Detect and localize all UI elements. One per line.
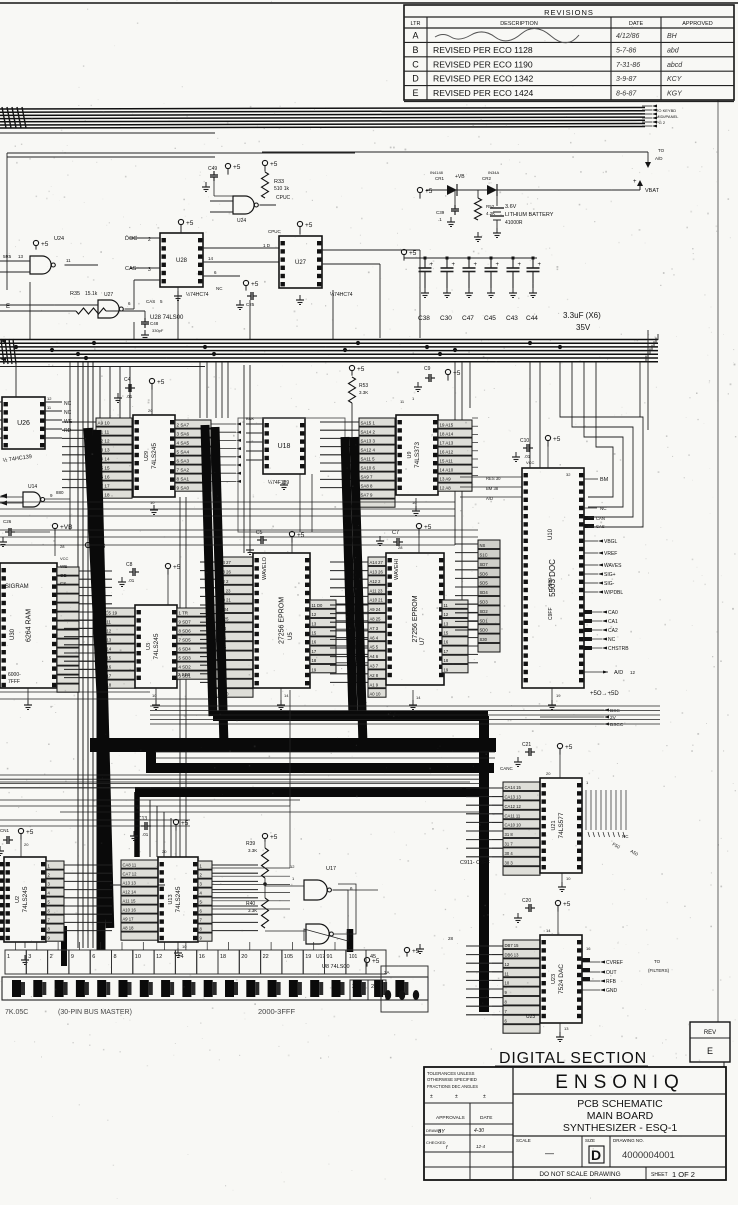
- svg-text:6264 RAM: 6264 RAM: [26, 609, 33, 642]
- svg-text:C7: C7: [392, 530, 399, 536]
- svg-text:16: 16: [586, 946, 591, 951]
- svg-text:28: 28: [448, 936, 454, 941]
- svg-text:14: 14: [208, 256, 214, 261]
- svg-text:.01: .01: [126, 394, 133, 399]
- svg-text:BSCC: BSCC: [610, 722, 624, 728]
- svg-text:D: D: [412, 74, 419, 84]
- svg-text:APPROVALS: APPROVALS: [436, 1115, 465, 1121]
- svg-text:CA0: CA0: [608, 610, 618, 616]
- svg-text:9: 9: [71, 954, 74, 960]
- svg-text:15: 15: [312, 631, 317, 636]
- svg-text:SHEET: SHEET: [651, 1172, 668, 1178]
- svg-text:C10: C10: [520, 438, 529, 444]
- svg-text:12: 12: [47, 396, 52, 401]
- svg-text:+5: +5: [26, 829, 34, 836]
- svg-text:7524 DAC: 7524 DAC: [558, 964, 565, 994]
- svg-text:12: 12: [444, 612, 449, 617]
- svg-text:NC: NC: [64, 410, 72, 416]
- svg-text:A9 17: A9 17: [123, 917, 135, 922]
- svg-text:18 A14: 18 A14: [440, 432, 454, 437]
- svg-text:30 3: 30 3: [505, 860, 514, 865]
- svg-text:3.3K: 3.3K: [359, 390, 368, 395]
- svg-text:CHSTRB: CHSTRB: [608, 646, 629, 652]
- svg-text:A5 5: A5 5: [370, 645, 379, 650]
- svg-text:A/D: A/D: [614, 670, 623, 676]
- svg-text:14 A10: 14 A10: [440, 468, 454, 473]
- svg-text:19: 19: [444, 667, 449, 672]
- svg-text:(FILTERS): (FILTERS): [648, 968, 670, 973]
- svg-text:U14: U14: [28, 484, 37, 490]
- svg-text:SYNTHESIZER - ESQ-1: SYNTHESIZER - ESQ-1: [563, 1122, 678, 1134]
- svg-text:U27: U27: [104, 292, 113, 298]
- svg-text:U26: U26: [17, 420, 30, 427]
- svg-text:31 8: 31 8: [505, 832, 514, 837]
- svg-text:C20: C20: [522, 898, 531, 904]
- svg-text:+5: +5: [553, 436, 561, 443]
- svg-text:12 A8: 12 A8: [440, 486, 452, 491]
- svg-text:5 SD3: 5 SD3: [179, 656, 192, 661]
- svg-text:+5: +5: [41, 241, 49, 248]
- svg-text:C911- C9FF: C911- C9FF: [460, 860, 490, 866]
- svg-text:CS: CS: [60, 581, 66, 586]
- svg-text:CPUC: CPUC: [268, 229, 282, 234]
- svg-text:7 SD5: 7 SD5: [179, 638, 192, 643]
- svg-text:+5: +5: [412, 948, 420, 955]
- svg-text:WAVEHI: WAVEHI: [394, 558, 400, 580]
- svg-text:SD5: SD5: [480, 581, 489, 586]
- svg-text:A12 2: A12 2: [370, 579, 382, 584]
- svg-text:SIG+: SIG+: [604, 572, 616, 578]
- svg-text:—: —: [545, 1148, 554, 1158]
- svg-text:A13 26: A13 26: [370, 570, 384, 575]
- svg-text:41000R: 41000R: [505, 220, 523, 226]
- svg-text:C39: C39: [436, 210, 445, 215]
- svg-text:NC: NC: [216, 286, 223, 291]
- svg-text:CAS: CAS: [596, 524, 605, 529]
- svg-text:20: 20: [24, 842, 29, 847]
- svg-text:R35: R35: [70, 291, 80, 297]
- svg-text:16: 16: [444, 640, 449, 645]
- svg-text:C800-: C800-: [548, 576, 554, 590]
- svg-text:REVISED PER ECO 1424: REVISED PER ECO 1424: [433, 88, 534, 98]
- svg-text:U23: U23: [526, 1014, 535, 1020]
- svg-text:7K.05C: 7K.05C: [5, 1009, 28, 1016]
- svg-text:VREF: VREF: [604, 551, 617, 557]
- svg-text:+5: +5: [357, 366, 365, 373]
- svg-text:BM: BM: [600, 477, 609, 483]
- svg-text:4 SA5: 4 SA5: [177, 441, 190, 446]
- svg-text:LTR: LTR: [411, 21, 421, 27]
- svg-text:7 SA2: 7 SA2: [177, 468, 190, 473]
- svg-text:+5: +5: [565, 744, 573, 751]
- svg-text:DATE: DATE: [480, 1115, 492, 1121]
- svg-text:C38: C38: [418, 315, 430, 322]
- svg-text:CA8 11: CA8 11: [123, 863, 137, 868]
- svg-text:R39: R39: [246, 841, 255, 847]
- svg-text:SIGRAM: SIGRAM: [5, 584, 29, 590]
- svg-text:.01: .01: [142, 832, 149, 837]
- svg-text:D̄OC: D̄OC: [125, 235, 137, 242]
- svg-text:NC: NC: [622, 834, 629, 839]
- svg-text:A/D: A/D: [655, 156, 663, 161]
- svg-text:74LS245: 74LS245: [22, 886, 29, 912]
- svg-text:REVISED PER ECO 1342: REVISED PER ECO 1342: [433, 74, 534, 84]
- svg-text:+5: +5: [270, 161, 278, 168]
- svg-text:22: 22: [263, 954, 269, 960]
- svg-text:14: 14: [546, 928, 551, 933]
- svg-text:E: E: [412, 88, 418, 98]
- svg-text:+: +: [538, 262, 542, 268]
- svg-text:5-7-86: 5-7-86: [616, 47, 636, 54]
- svg-text:CR1: CR1: [435, 176, 444, 181]
- svg-text:20: 20: [148, 408, 153, 413]
- svg-text:FRACTIONS DEC ANGLES: FRACTIONS DEC ANGLES: [427, 1084, 478, 1089]
- svg-text:2 SD0: 2 SD0: [178, 672, 191, 677]
- svg-text:15 A11: 15 A11: [440, 459, 454, 464]
- svg-text:7-31-86: 7-31-86: [616, 62, 640, 69]
- svg-text:C4: C4: [124, 377, 131, 383]
- svg-text:U27: U27: [295, 260, 307, 266]
- svg-text:101: 101: [349, 954, 358, 960]
- svg-text:11: 11: [444, 603, 449, 608]
- svg-text:DB7 15: DB7 15: [505, 943, 520, 948]
- svg-text:VBGL: VBGL: [604, 539, 618, 545]
- svg-text:U5: U5: [288, 632, 294, 640]
- svg-text:B: B: [412, 45, 418, 55]
- svg-text:U13: U13: [168, 894, 174, 904]
- svg-text:74LS577: 74LS577: [558, 812, 565, 838]
- svg-text:APPROVED: APPROVED: [682, 21, 713, 27]
- svg-text:45: 45: [370, 954, 376, 960]
- svg-text:WE: WE: [60, 564, 67, 569]
- svg-text:KCY: KCY: [667, 76, 683, 83]
- svg-text:30 4: 30 4: [505, 851, 514, 856]
- svg-text:+5: +5: [186, 220, 194, 227]
- svg-text:SA7 9: SA7 9: [361, 493, 374, 498]
- svg-text:SA15 1: SA15 1: [361, 421, 376, 426]
- svg-text:NC: NC: [608, 637, 616, 643]
- svg-text:19: 19: [312, 667, 317, 672]
- svg-text:+5: +5: [157, 379, 165, 386]
- svg-text:IN4148: IN4148: [430, 170, 444, 175]
- svg-text:CAS: CAS: [125, 266, 137, 272]
- svg-text:8 SD6: 8 SD6: [179, 629, 192, 634]
- svg-text:3.6V: 3.6V: [505, 204, 517, 210]
- svg-text:2000-3FFF: 2000-3FFF: [258, 1007, 296, 1016]
- svg-text:8 SA1: 8 SA1: [177, 477, 190, 482]
- svg-text:A0 10: A0 10: [370, 692, 382, 697]
- svg-text:12: 12: [630, 670, 636, 675]
- svg-text:15: 15: [444, 631, 449, 636]
- svg-text:17 A13: 17 A13: [440, 441, 454, 446]
- svg-text:10: 10: [412, 500, 417, 505]
- svg-text:CR2: CR2: [482, 176, 491, 181]
- svg-text:CN1: CN1: [0, 828, 9, 833]
- svg-text:BSC: BSC: [610, 708, 620, 714]
- svg-text:+5O→+5D: +5O→+5D: [590, 691, 619, 697]
- svg-text:SD0: SD0: [480, 628, 489, 633]
- svg-text:SA11 5: SA11 5: [361, 457, 376, 462]
- svg-text:±: ±: [430, 1094, 433, 1100]
- svg-text:+VB: +VB: [455, 174, 465, 180]
- svg-text:C48: C48: [150, 321, 159, 326]
- svg-text:U18: U18: [278, 443, 291, 450]
- svg-text:14: 14: [284, 693, 289, 698]
- svg-text:74LS245: 74LS245: [153, 633, 160, 659]
- svg-text:VBAT: VBAT: [645, 188, 660, 194]
- svg-text:12-4: 12-4: [476, 1144, 486, 1149]
- svg-text:E: E: [707, 1046, 713, 1056]
- svg-text:A2 8: A2 8: [370, 673, 379, 678]
- svg-text:27256 EPROM: 27256 EPROM: [279, 597, 286, 644]
- svg-text:19: 19: [556, 693, 561, 698]
- svg-text:SA8 8: SA8 8: [361, 484, 374, 489]
- svg-text:13: 13: [18, 254, 24, 259]
- svg-text:+5: +5: [251, 281, 259, 288]
- svg-text:C9: C9: [424, 366, 431, 372]
- svg-text:10: 10: [150, 500, 155, 505]
- svg-text:8: 8: [114, 954, 117, 960]
- svg-text:DRAWING NO.: DRAWING NO.: [613, 1138, 644, 1143]
- svg-text:31 7: 31 7: [505, 842, 514, 847]
- svg-text:1 OF 2: 1 OF 2: [672, 1170, 695, 1179]
- svg-text:12: 12: [312, 612, 317, 617]
- svg-text:20: 20: [241, 954, 247, 960]
- svg-text:510 1k: 510 1k: [274, 186, 290, 192]
- svg-text:28: 28: [398, 545, 403, 550]
- svg-text:RFB: RFB: [606, 979, 617, 985]
- svg-text:3.3uF (X6): 3.3uF (X6): [563, 311, 601, 320]
- svg-text:±: ±: [455, 1094, 458, 1100]
- svg-text:14: 14: [177, 954, 183, 960]
- svg-text:7FFF: 7FFF: [8, 679, 20, 685]
- svg-text:8-6-87: 8-6-87: [616, 91, 637, 98]
- svg-text:+: +: [518, 262, 522, 268]
- svg-text:91: 91: [327, 954, 333, 960]
- svg-text:11: 11: [505, 971, 510, 976]
- svg-text:U30: U30: [10, 628, 16, 640]
- svg-text:13 A9: 13 A9: [440, 477, 452, 482]
- svg-text:MAIN BOARD: MAIN BOARD: [587, 1110, 654, 1122]
- svg-text:U24: U24: [54, 236, 64, 242]
- svg-text:16 A12: 16 A12: [440, 450, 454, 455]
- svg-text:CANC: CANC: [500, 766, 514, 771]
- svg-text:4/12/86: 4/12/86: [616, 33, 639, 40]
- svg-text:+5: +5: [270, 834, 278, 841]
- svg-text:.01: .01: [128, 578, 135, 583]
- svg-text:A7 3: A7 3: [370, 626, 379, 631]
- svg-text:U28 74LS00: U28 74LS00: [150, 315, 184, 321]
- svg-text:13: 13: [444, 621, 449, 626]
- svg-text:DB6 13: DB6 13: [505, 953, 520, 958]
- svg-text:BH: BH: [667, 33, 678, 40]
- svg-text:10: 10: [182, 944, 187, 949]
- svg-text:CA7 12: CA7 12: [123, 872, 138, 877]
- svg-text:19: 19: [305, 954, 311, 960]
- svg-text:U17: U17: [326, 866, 336, 872]
- svg-text:+: +: [474, 262, 478, 268]
- svg-text:U29: U29: [144, 451, 150, 461]
- svg-text:6 SD4: 6 SD4: [179, 647, 192, 652]
- svg-text:LITHIUM BATTERY: LITHIUM BATTERY: [505, 212, 554, 218]
- svg-text:3: 3: [28, 954, 31, 960]
- svg-text:A10 16: A10 16: [123, 908, 137, 913]
- svg-text:U24: U24: [237, 218, 246, 224]
- svg-text:REV: REV: [704, 1030, 716, 1036]
- svg-text:R40: R40: [246, 901, 255, 907]
- svg-text:CA1: CA1: [608, 619, 618, 625]
- svg-text:105: 105: [284, 954, 293, 960]
- svg-text:CA14 15: CA14 15: [505, 785, 522, 790]
- svg-text:.1: .1: [438, 217, 442, 222]
- svg-text:SA12 4: SA12 4: [361, 448, 376, 453]
- svg-text:74LS245: 74LS245: [175, 886, 182, 912]
- svg-text:35V: 35V: [576, 323, 591, 332]
- svg-text:5R5: 5R5: [3, 254, 12, 259]
- svg-text:74LS373: 74LS373: [414, 442, 421, 468]
- svg-text:12: 12: [290, 864, 295, 869]
- svg-text:13: 13: [564, 1026, 569, 1031]
- svg-text:9 SA0: 9 SA0: [177, 486, 190, 491]
- svg-text:OTHERWISE SPECIFIED: OTHERWISE SPECIFIED: [427, 1077, 477, 1082]
- svg-text:KGY: KGY: [667, 91, 683, 98]
- svg-text:CA2: CA2: [608, 628, 618, 634]
- svg-text:C26: C26: [3, 519, 12, 524]
- svg-text:16: 16: [199, 954, 205, 960]
- svg-text:330pF: 330pF: [152, 328, 164, 333]
- svg-text:1 D: 1 D: [263, 243, 271, 248]
- svg-text:CA12 12: CA12 12: [505, 804, 522, 809]
- svg-text:abcd: abcd: [667, 62, 683, 69]
- svg-text:13: 13: [312, 621, 317, 626]
- svg-text:A12 14: A12 14: [123, 890, 137, 895]
- svg-text:PCB SCHEMATIC: PCB SCHEMATIC: [577, 1098, 663, 1110]
- svg-text:A6 4: A6 4: [370, 635, 379, 640]
- svg-text:C43: C43: [506, 315, 518, 322]
- svg-text:PG 2: PG 2: [656, 120, 666, 125]
- svg-text:+5: +5: [305, 222, 313, 229]
- svg-text:11: 11: [66, 258, 71, 263]
- svg-text:SD3: SD3: [480, 600, 489, 605]
- svg-text:VCC: VCC: [60, 556, 69, 561]
- svg-text:18: 18: [220, 954, 226, 960]
- svg-text:DO NOT SCALE DRAWING: DO NOT SCALE DRAWING: [539, 1171, 620, 1178]
- svg-text:DATE: DATE: [629, 21, 644, 27]
- svg-text:+5: +5: [233, 164, 241, 171]
- svg-text:27256 EPROM: 27256 EPROM: [412, 595, 419, 642]
- svg-text:+5: +5: [297, 532, 305, 539]
- svg-text:3-9-87: 3-9-87: [616, 76, 637, 83]
- svg-text:U21: U21: [551, 820, 557, 830]
- svg-text:C8: C8: [126, 562, 133, 568]
- svg-text:20: 20: [546, 771, 551, 776]
- svg-text:C13: C13: [138, 816, 147, 822]
- svg-text:SIZE: SIZE: [585, 1138, 595, 1143]
- svg-text:U10: U10: [548, 528, 554, 540]
- svg-text:SA13 3: SA13 3: [361, 439, 376, 444]
- svg-text:REVISED PER ECO 1128: REVISED PER ECO 1128: [433, 45, 533, 55]
- svg-text:SD2: SD2: [480, 609, 489, 614]
- svg-text:6000-: 6000-: [8, 672, 21, 678]
- svg-text:SD6: SD6: [480, 571, 489, 576]
- svg-text:2 SA7: 2 SA7: [177, 423, 190, 428]
- svg-text:A14 27: A14 27: [370, 560, 384, 565]
- svg-text:+5: +5: [425, 188, 433, 195]
- svg-text:IN34A: IN34A: [488, 170, 499, 175]
- svg-text:NS: NS: [480, 543, 486, 548]
- svg-text:GND: GND: [606, 988, 618, 994]
- svg-text:R33: R33: [274, 179, 284, 185]
- svg-text:14: 14: [416, 695, 421, 700]
- svg-text:C44: C44: [526, 315, 538, 322]
- svg-text:C45: C45: [484, 315, 496, 322]
- svg-text:U28: U28: [176, 258, 188, 264]
- svg-text:A8 25: A8 25: [370, 617, 382, 622]
- svg-text:DIGITAL SECTION: DIGITAL SECTION: [499, 1050, 647, 1067]
- svg-text:+: +: [496, 262, 500, 268]
- svg-text:C5: C5: [256, 530, 263, 536]
- svg-text:C9FF: C9FF: [548, 608, 554, 621]
- svg-text:+5: +5: [453, 370, 461, 377]
- svg-text:WAVELO: WAVELO: [262, 556, 268, 580]
- svg-text:12: 12: [156, 954, 162, 960]
- svg-text:12: 12: [505, 962, 510, 967]
- svg-text:15.1k: 15.1k: [85, 291, 98, 297]
- svg-text:C49: C49: [208, 166, 217, 172]
- svg-text:U7: U7: [420, 637, 426, 645]
- svg-text:10: 10: [505, 981, 510, 986]
- svg-text:S30: S30: [480, 637, 488, 642]
- svg-text:+: +: [452, 262, 456, 268]
- svg-text:REVISIONS: REVISIONS: [544, 8, 594, 17]
- svg-text:TO: TO: [654, 959, 661, 964]
- svg-text:32: 32: [566, 472, 571, 477]
- svg-text:±: ±: [483, 1094, 486, 1100]
- svg-text:D: D: [591, 1147, 601, 1163]
- svg-text:U2: U2: [15, 896, 21, 903]
- svg-text:18: 18: [312, 658, 317, 663]
- svg-text:18: 18: [444, 658, 449, 663]
- svg-text:CA10 10: CA10 10: [505, 823, 522, 828]
- svg-text:A4 6: A4 6: [370, 654, 379, 659]
- svg-text:A8 18: A8 18: [123, 926, 135, 931]
- svg-text:20: 20: [162, 849, 167, 854]
- svg-text:A9 10: A9 10: [98, 421, 110, 426]
- svg-text:SIG-: SIG-: [604, 581, 615, 587]
- svg-text:TOLERANCES UNLESS: TOLERANCES UNLESS: [427, 1071, 475, 1076]
- svg-text:+5: +5: [563, 901, 571, 908]
- svg-text:SA10 6: SA10 6: [361, 466, 376, 471]
- svg-text:19 A15: 19 A15: [440, 423, 454, 428]
- svg-text:A13 13: A13 13: [123, 881, 137, 886]
- svg-text:REVISED PER ECO 1190: REVISED PER ECO 1190: [433, 59, 533, 69]
- svg-text:CHECKED: CHECKED: [426, 1140, 446, 1145]
- svg-text:½74HC74: ½74HC74: [186, 291, 209, 298]
- svg-text:1 TR: 1 TR: [179, 611, 188, 616]
- svg-text:A11 15: A11 15: [123, 899, 137, 904]
- svg-text:abd: abd: [667, 47, 680, 54]
- svg-text:10: 10: [566, 876, 571, 881]
- svg-text:74LS245: 74LS245: [151, 443, 158, 469]
- svg-text:880: 880: [56, 490, 64, 495]
- svg-text:SA14 2: SA14 2: [361, 430, 376, 435]
- svg-text:E: E: [6, 304, 10, 310]
- svg-text:9 SD7: 9 SD7: [179, 620, 192, 625]
- svg-text:R53: R53: [359, 383, 368, 389]
- svg-text:4 SD2: 4 SD2: [179, 665, 192, 670]
- svg-text:SA9 7: SA9 7: [361, 475, 374, 480]
- svg-text:BY: BY: [438, 1129, 445, 1135]
